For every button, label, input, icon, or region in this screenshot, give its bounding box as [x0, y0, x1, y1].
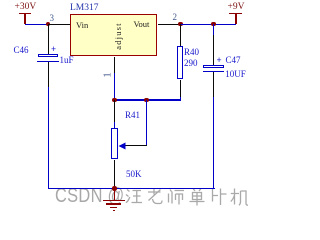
capacitor C47 plus [217, 56, 222, 65]
wiper arrow [118, 142, 127, 150]
resistor R40 pin bottom [180, 80, 181, 97]
label C47 [226, 56, 241, 65]
node junction ground [112, 186, 117, 191]
pin name adjust [114, 22, 123, 50]
capacitor C46 top plate [38, 54, 58, 57]
power +30V [15, 3, 37, 12]
potentiometer R41 pin top [114, 100, 115, 122]
resistor R40 pin top [180, 24, 181, 46]
power bar +9V [229, 13, 242, 14]
wire R41 top stub [114, 122, 115, 128]
potentiometer R41 body [111, 128, 118, 160]
ground bar 2 [106, 203, 121, 204]
capacitor C46 label [14, 46, 29, 55]
ground bar 3 [110, 207, 117, 208]
wire ground net horizontal [48, 188, 215, 189]
wiper line [124, 145, 147, 146]
pin 1 adjust [114, 57, 115, 74]
ground bar 4 [113, 209, 115, 212]
wire adjust down [114, 73, 115, 100]
ground stem [114, 189, 115, 201]
wire C47 to ground net [213, 97, 214, 189]
capacitor C47 pin top [213, 35, 214, 65]
pin number 1 [103, 72, 112, 78]
wire R40 to adjust net [180, 97, 181, 101]
capacitor C47 top plate [203, 65, 224, 68]
node junction adjust/R41 [112, 98, 117, 103]
wire node2 to +9V [180, 24, 236, 25]
node junction C47 top [211, 22, 216, 27]
label 1uF [60, 56, 74, 65]
wire +30V to node 3 [25, 24, 48, 25]
potentiometer R41 pin bottom [114, 160, 115, 189]
power stem +30V [24, 13, 25, 24]
label 50K [126, 170, 142, 179]
label R40 [184, 48, 199, 57]
label LM317 [70, 4, 99, 13]
power bar +30V [19, 13, 31, 14]
pin name Vout [134, 20, 150, 29]
power stem +9V [235, 14, 236, 25]
power +9V [228, 3, 245, 12]
label R41 [125, 111, 140, 120]
watermark CSDN @汪老师单片机 [55, 186, 124, 207]
ground bar 1 [103, 200, 126, 201]
op-amp U? regulator LM317 box [70, 14, 157, 56]
node 3 junction [46, 22, 51, 27]
wire adjust net horizontal [114, 99, 181, 100]
pin number 3 [50, 14, 55, 23]
node junction wiper [144, 98, 149, 103]
node junction R40 top [178, 22, 183, 27]
capacitor C46 bottom plate [37, 61, 58, 62]
label 10UF [225, 70, 246, 79]
pin name Vin [76, 21, 88, 30]
pin number 2 [173, 13, 178, 22]
capacitor C47 bottom plate [203, 71, 225, 72]
label 290 [184, 59, 198, 68]
capacitor C46 pin top [48, 24, 49, 54]
resistor R40 body [177, 46, 183, 80]
capacitor C46 pin bottom [48, 62, 49, 87]
wire C46 to ground net [48, 87, 49, 189]
wire wiper riser [146, 100, 147, 146]
pin 3 [48, 24, 70, 25]
pin 2 [158, 24, 180, 25]
capacitor C46 plus [51, 45, 56, 54]
capacitor C47 pin bottom [213, 72, 214, 97]
wire C47 top [213, 24, 214, 35]
